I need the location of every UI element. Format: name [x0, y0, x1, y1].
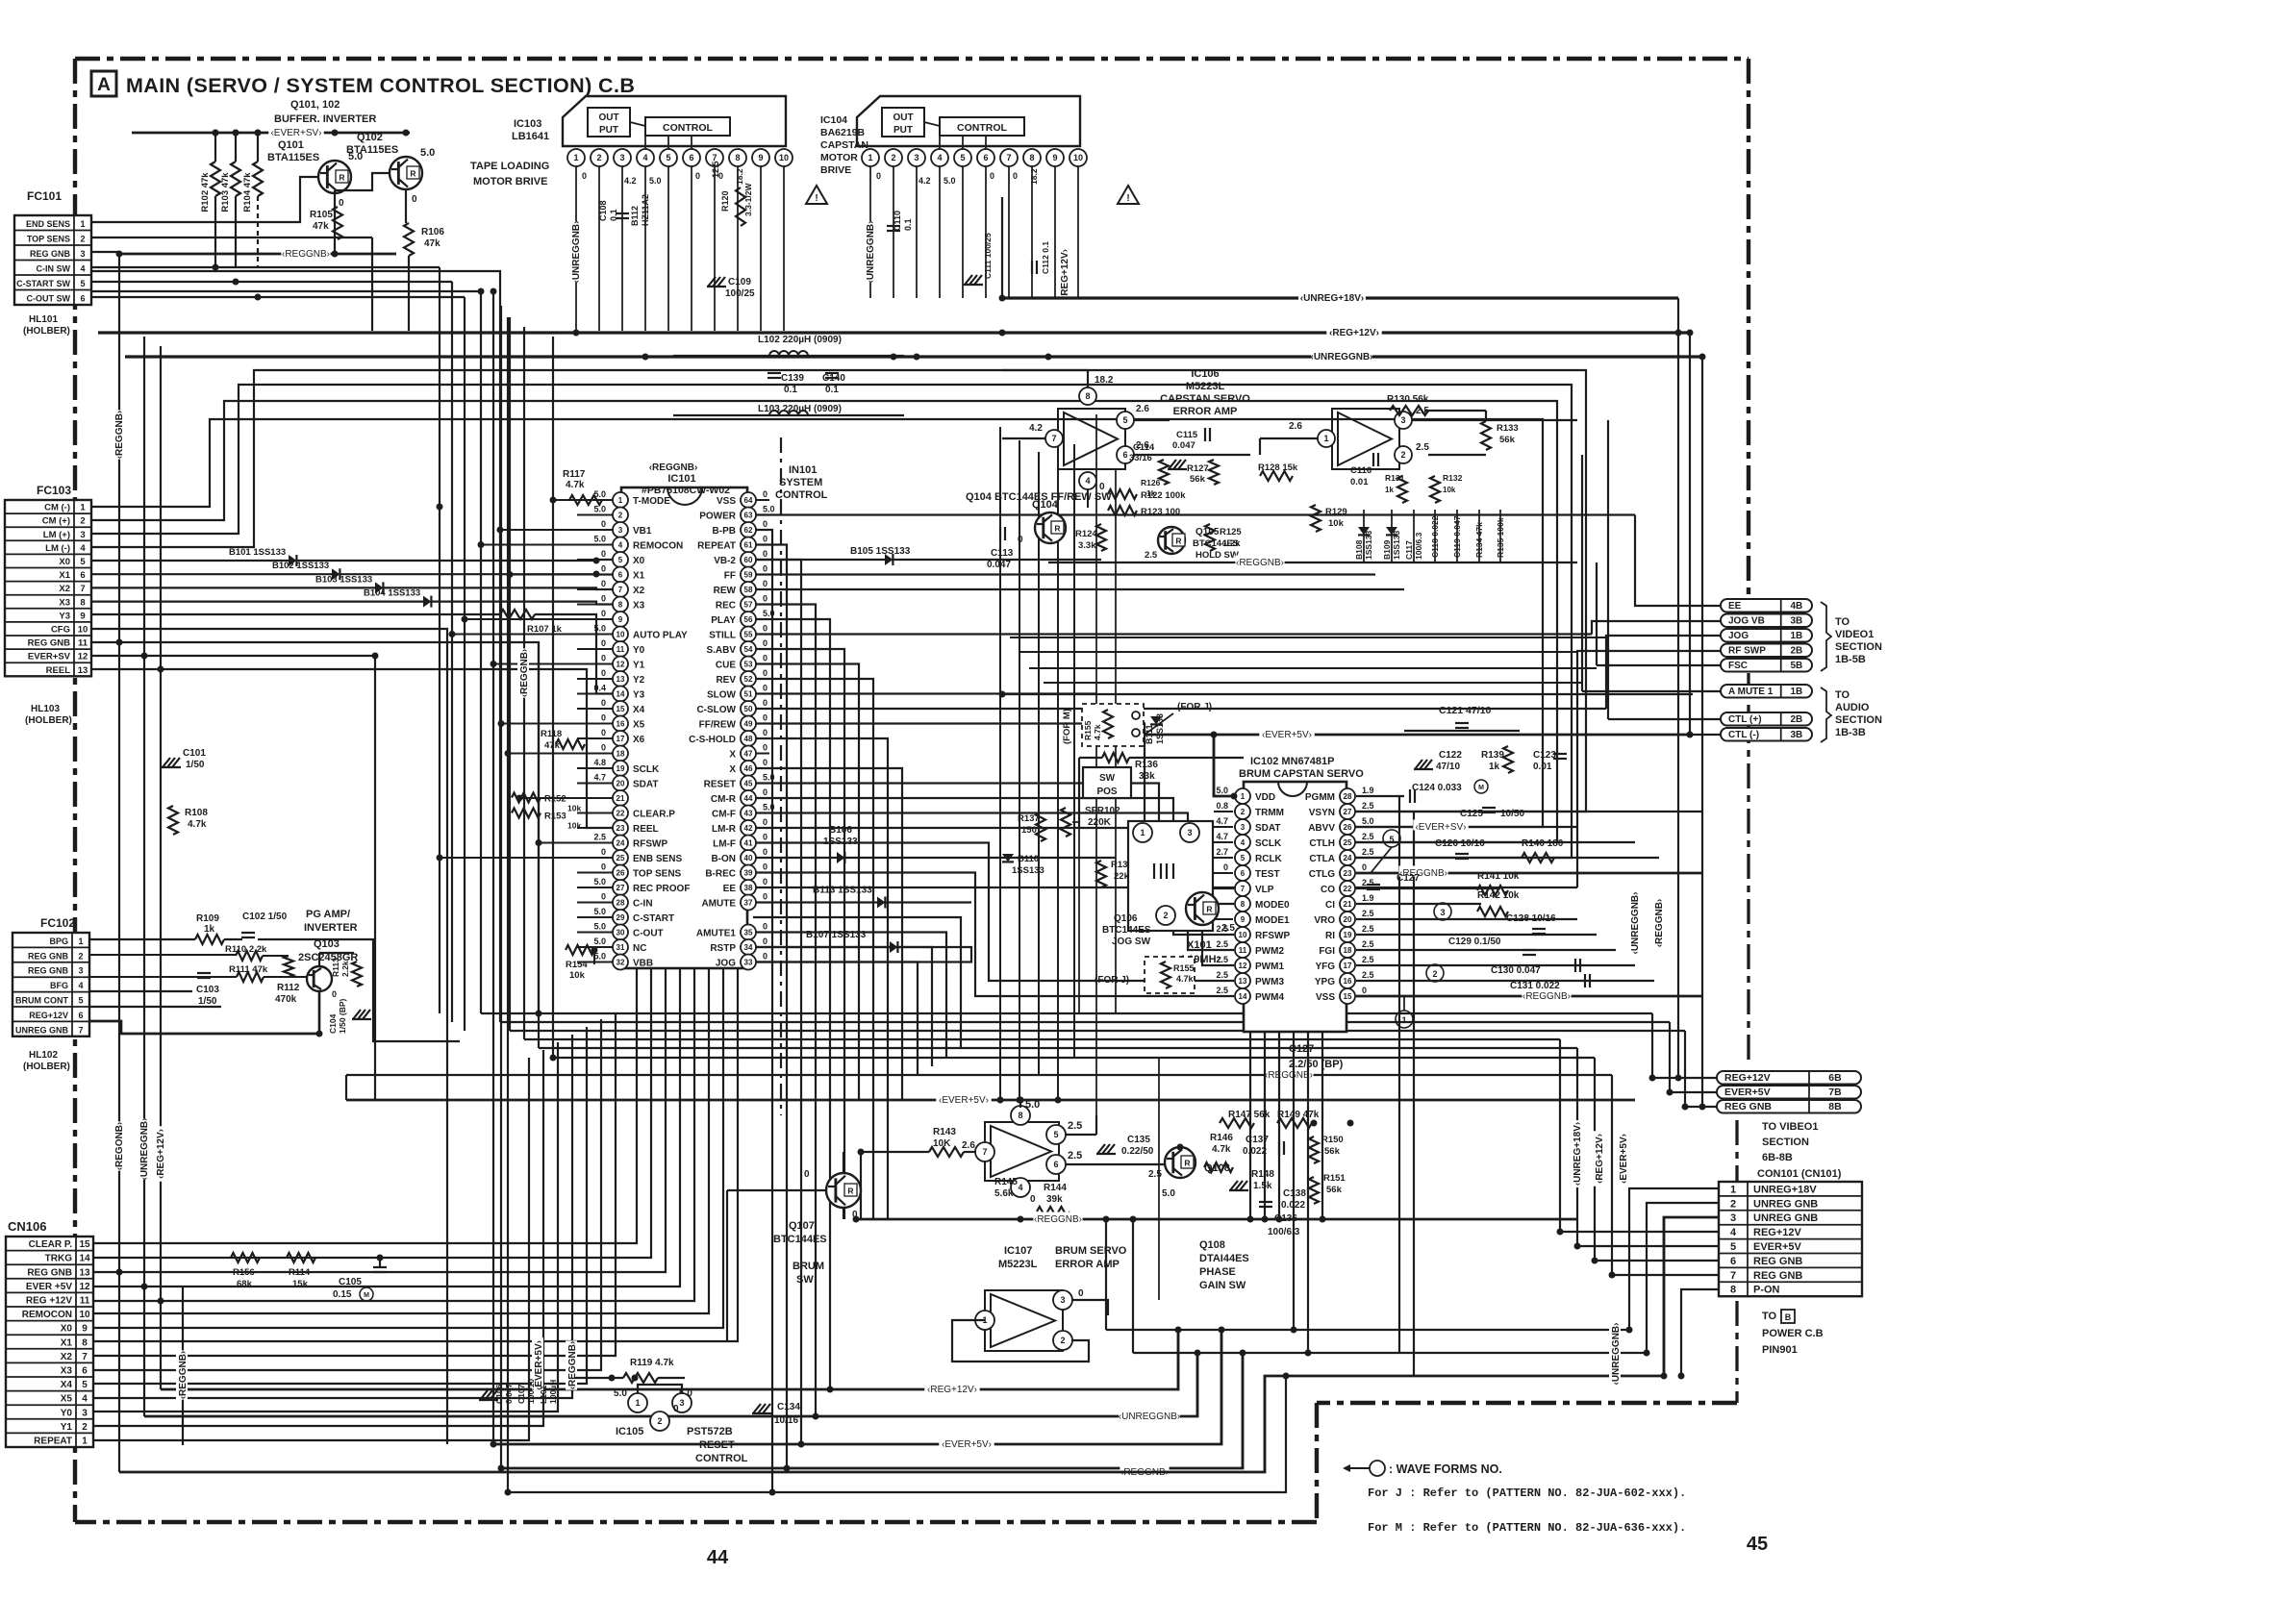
svg-text:56: 56 — [744, 615, 753, 624]
svg-text:1SS133: 1SS133 — [1012, 865, 1044, 876]
svg-text:3B: 3B — [1790, 616, 1802, 627]
svg-text:6: 6 — [82, 1366, 88, 1377]
svg-text:(FOR J): (FOR J) — [1177, 702, 1212, 712]
svg-text:M5223L: M5223L — [1186, 381, 1225, 392]
svg-text:18.2: 18.2 — [735, 168, 744, 185]
svg-text:REG GNB: REG GNB — [1724, 1101, 1772, 1112]
svg-text:REPEAT: REPEAT — [34, 1437, 72, 1447]
svg-text:R102 47k: R102 47k — [200, 172, 211, 212]
svg-text:A MUTE 1: A MUTE 1 — [1728, 687, 1774, 697]
svg-text:20: 20 — [1344, 915, 1352, 924]
svg-text:C135: C135 — [1127, 1135, 1150, 1145]
svg-text:FGI: FGI — [1319, 946, 1335, 957]
svg-text:IN101: IN101 — [789, 464, 817, 476]
svg-text:4.7: 4.7 — [593, 773, 606, 783]
svg-text:10: 10 — [1073, 153, 1083, 162]
svg-text:B106: B106 — [829, 825, 852, 836]
svg-text:C115: C115 — [1176, 430, 1198, 440]
svg-text:4: 4 — [1085, 476, 1090, 486]
svg-text:‹UNREG+18V›: ‹UNREG+18V› — [1300, 293, 1364, 304]
svg-text:2.5: 2.5 — [1068, 1150, 1082, 1162]
svg-text:B113 1SS133: B113 1SS133 — [813, 886, 872, 896]
svg-text:C127: C127 — [1289, 1043, 1314, 1055]
svg-text:STILL: STILL — [709, 631, 736, 641]
svg-text:8: 8 — [735, 153, 740, 162]
svg-text:R105: R105 — [310, 210, 333, 220]
svg-text:58: 58 — [744, 586, 753, 594]
svg-text:TO VIBEO1: TO VIBEO1 — [1762, 1121, 1818, 1133]
svg-text:‹UNREGGNB›: ‹UNREGGNB› — [1630, 892, 1641, 955]
svg-text:A: A — [97, 75, 111, 95]
svg-text:C-OUT: C-OUT — [633, 929, 664, 939]
svg-text:4.8: 4.8 — [593, 758, 606, 767]
svg-text:IC103: IC103 — [514, 118, 541, 130]
svg-text:0: 0 — [412, 194, 417, 205]
svg-text:15: 15 — [617, 705, 625, 713]
svg-text:56k: 56k — [1324, 1146, 1341, 1157]
svg-text:13: 13 — [79, 1267, 90, 1278]
svg-text:‹UNREGGNB›: ‹UNREGGNB› — [1611, 1323, 1622, 1386]
svg-text:37: 37 — [744, 899, 753, 908]
svg-text:2: 2 — [618, 512, 623, 520]
svg-text:C112 0.1: C112 0.1 — [1041, 241, 1050, 274]
svg-text:5.0: 5.0 — [593, 907, 606, 916]
svg-text:39k: 39k — [1046, 1194, 1063, 1205]
svg-text:57: 57 — [744, 601, 753, 610]
svg-text:23: 23 — [1344, 869, 1352, 878]
svg-text:REG GNB: REG GNB — [27, 1267, 72, 1278]
svg-text:(HOLBER): (HOLBER) — [23, 1062, 70, 1072]
svg-text:55: 55 — [744, 631, 753, 639]
svg-text:SECTION: SECTION — [1835, 714, 1882, 726]
svg-text:38: 38 — [744, 884, 753, 892]
svg-text:3: 3 — [80, 249, 85, 259]
svg-text:R136: R136 — [1135, 760, 1158, 770]
svg-text:1B: 1B — [1790, 687, 1802, 697]
svg-text:JOG SW: JOG SW — [1112, 937, 1151, 947]
svg-text:R155: R155 — [1173, 963, 1195, 973]
svg-text:60: 60 — [744, 556, 753, 564]
svg-text:BTA115ES: BTA115ES — [267, 152, 319, 163]
svg-text:VSS: VSS — [717, 496, 736, 507]
svg-text:0: 0 — [763, 654, 768, 663]
svg-text:2.2k: 2.2k — [340, 961, 350, 977]
svg-text:C-SLOW: C-SLOW — [696, 705, 736, 715]
svg-text:2: 2 — [1241, 808, 1246, 816]
svg-text:L101: L101 — [539, 1385, 548, 1404]
svg-text:0: 0 — [763, 713, 768, 723]
svg-text:C127: C127 — [1397, 873, 1420, 884]
svg-text:(FOR J): (FOR J) — [1095, 975, 1129, 986]
svg-text:5: 5 — [1389, 835, 1394, 844]
svg-text:6: 6 — [983, 153, 988, 162]
svg-text:62: 62 — [744, 526, 753, 535]
svg-text:16: 16 — [617, 720, 625, 729]
svg-text:R: R — [410, 169, 415, 179]
svg-text:5: 5 — [80, 557, 86, 567]
svg-text:CTL (-): CTL (-) — [1728, 730, 1759, 740]
svg-text:45: 45 — [744, 780, 753, 788]
svg-text:0: 0 — [601, 609, 606, 618]
svg-text:5: 5 — [1730, 1241, 1736, 1253]
svg-text:31: 31 — [617, 943, 625, 952]
svg-text:4: 4 — [80, 543, 86, 554]
svg-text:23: 23 — [617, 824, 625, 833]
svg-text:2: 2 — [1163, 911, 1168, 920]
svg-text:63: 63 — [744, 512, 753, 520]
svg-text:5: 5 — [1241, 854, 1246, 862]
svg-text:REG GNB: REG GNB — [28, 951, 69, 961]
svg-text:4.2: 4.2 — [1029, 423, 1043, 434]
svg-text:‹REGGNB›: ‹REGGNB› — [1236, 558, 1284, 568]
svg-text:INVERTER: INVERTER — [304, 922, 358, 934]
svg-text:REMOCON: REMOCON — [22, 1310, 72, 1320]
svg-text:34: 34 — [744, 943, 753, 952]
svg-text:6: 6 — [80, 294, 85, 304]
svg-text:2.5: 2.5 — [1068, 1120, 1082, 1132]
svg-text:13: 13 — [78, 665, 88, 676]
svg-text:2.5: 2.5 — [1216, 939, 1228, 949]
svg-text:10: 10 — [617, 631, 625, 639]
svg-text:PWM2: PWM2 — [1255, 946, 1284, 957]
svg-text:R127: R127 — [1187, 463, 1209, 474]
svg-text:3: 3 — [80, 530, 85, 540]
svg-text:X3: X3 — [633, 601, 645, 612]
svg-text:2: 2 — [1060, 1336, 1065, 1345]
svg-text:VRO: VRO — [1314, 915, 1335, 926]
svg-text:‹UNREGGNB›: ‹UNREGGNB› — [866, 221, 876, 284]
svg-text:1: 1 — [78, 937, 83, 946]
svg-text:M: M — [364, 1292, 369, 1299]
svg-text:2.5: 2.5 — [1145, 550, 1158, 561]
svg-text:2.5: 2.5 — [1216, 970, 1228, 980]
svg-text:Q105: Q105 — [1195, 527, 1220, 537]
svg-text:C113: C113 — [991, 548, 1014, 559]
svg-text:REG GNB: REG GNB — [28, 966, 69, 976]
svg-text:‹REG+12V›: ‹REG+12V› — [927, 1385, 977, 1395]
svg-text:45: 45 — [1747, 1534, 1768, 1555]
svg-text:Q107: Q107 — [789, 1220, 815, 1232]
svg-text:BTC144ES: BTC144ES — [1102, 925, 1151, 936]
svg-text:47/10: 47/10 — [1436, 762, 1460, 772]
svg-text:6: 6 — [1730, 1256, 1736, 1267]
svg-text:REG GNB: REG GNB — [1753, 1256, 1802, 1267]
svg-text:X4: X4 — [61, 1380, 73, 1390]
svg-text:2B: 2B — [1790, 714, 1802, 725]
svg-text:RCLK: RCLK — [1255, 854, 1283, 864]
svg-text:C130 0.047: C130 0.047 — [1491, 965, 1541, 976]
svg-text:TO: TO — [1835, 616, 1850, 628]
svg-text:9: 9 — [1241, 915, 1246, 924]
svg-text:42: 42 — [744, 824, 753, 833]
svg-text:53: 53 — [744, 661, 753, 669]
svg-text:2.6: 2.6 — [962, 1140, 975, 1151]
svg-text:0: 0 — [601, 698, 606, 708]
svg-text:‹UNREGGNB›: ‹UNREGGNB› — [571, 221, 582, 284]
svg-text:CTLH: CTLH — [1309, 838, 1335, 849]
svg-text:‹REGGNB›: ‹REGGNB› — [1654, 899, 1665, 948]
svg-text:X0: X0 — [633, 556, 645, 566]
svg-text:8: 8 — [1029, 153, 1034, 162]
svg-text:B-PB: B-PB — [713, 526, 736, 537]
svg-text:SW: SW — [1099, 773, 1116, 784]
svg-text:C123: C123 — [1533, 750, 1556, 761]
svg-text:9: 9 — [758, 153, 763, 162]
svg-text:5.0: 5.0 — [1216, 786, 1228, 795]
svg-text:BPG: BPG — [49, 937, 68, 946]
svg-text:Y3: Y3 — [633, 690, 645, 701]
svg-text:4.7k: 4.7k — [566, 480, 585, 490]
svg-text:2.5: 2.5 — [1362, 832, 1374, 841]
svg-text:3: 3 — [82, 1408, 88, 1418]
svg-text:R118: R118 — [541, 729, 562, 739]
svg-text:0: 0 — [601, 594, 606, 604]
svg-text:TOP SENS: TOP SENS — [27, 235, 70, 244]
svg-text:2.5: 2.5 — [1221, 923, 1235, 934]
svg-text:R153: R153 — [544, 812, 566, 822]
svg-text:0: 0 — [763, 668, 768, 678]
svg-text:8: 8 — [1085, 391, 1090, 401]
svg-text:YPG: YPG — [1315, 977, 1335, 987]
svg-text:9: 9 — [618, 615, 623, 624]
svg-text:C114: C114 — [1133, 442, 1155, 453]
svg-text:C128 10/16: C128 10/16 — [1506, 913, 1556, 924]
svg-text:CI: CI — [1325, 900, 1335, 911]
svg-text:1: 1 — [618, 496, 623, 505]
svg-text:C139: C139 — [781, 373, 804, 384]
svg-text:VDD: VDD — [1255, 792, 1275, 803]
svg-text:X3: X3 — [59, 597, 70, 608]
svg-text:1.9: 1.9 — [1362, 786, 1374, 795]
svg-text:0: 0 — [601, 668, 606, 678]
svg-text:AUTO PLAY: AUTO PLAY — [633, 631, 688, 641]
svg-text:‹EVER+5V›: ‹EVER+5V› — [1262, 730, 1312, 740]
svg-text:VB1: VB1 — [633, 526, 652, 537]
svg-text:CONTROL: CONTROL — [695, 1453, 748, 1464]
svg-text:2: 2 — [1400, 450, 1405, 460]
svg-text:0: 0 — [763, 638, 768, 648]
svg-text:LM-R: LM-R — [712, 824, 737, 835]
svg-text:IC105: IC105 — [616, 1426, 643, 1437]
svg-text:R120: R120 — [720, 190, 730, 212]
svg-text:FC101: FC101 — [27, 189, 62, 203]
svg-text:B109: B109 — [1382, 539, 1392, 560]
svg-text:0: 0 — [763, 937, 768, 946]
svg-text:2.5: 2.5 — [1362, 801, 1374, 811]
svg-text:C107: C107 — [516, 1384, 526, 1404]
svg-text:BA6219B: BA6219B — [820, 127, 866, 138]
svg-text:GAIN SW: GAIN SW — [1199, 1280, 1246, 1291]
svg-text:5.0: 5.0 — [649, 176, 662, 186]
svg-text:26: 26 — [617, 869, 625, 878]
svg-text:16: 16 — [1344, 977, 1352, 986]
svg-text:3.3-1/2W: 3.3-1/2W — [743, 183, 753, 216]
svg-text:15k: 15k — [292, 1279, 309, 1289]
svg-text:0: 0 — [763, 743, 768, 753]
svg-text:C118 0.022: C118 0.022 — [1430, 515, 1440, 558]
svg-text:X1: X1 — [61, 1337, 73, 1348]
svg-text:2B: 2B — [1790, 646, 1802, 657]
svg-text:R151: R151 — [1323, 1173, 1346, 1184]
svg-text:R122 100k: R122 100k — [1141, 490, 1186, 501]
svg-text:JOG VB: JOG VB — [1728, 616, 1765, 627]
svg-text:B105 1SS133: B105 1SS133 — [850, 546, 911, 557]
svg-text:REEL: REEL — [46, 665, 71, 676]
svg-text:RF SWP: RF SWP — [1728, 646, 1766, 657]
svg-text:49: 49 — [744, 720, 753, 729]
svg-text:CTLG: CTLG — [1309, 869, 1335, 880]
svg-text:1: 1 — [80, 219, 85, 229]
svg-text:HZ11A2: HZ11A2 — [641, 194, 650, 226]
svg-text:52: 52 — [744, 675, 753, 684]
svg-text:4: 4 — [642, 153, 647, 162]
svg-text:R135 100k: R135 100k — [1496, 517, 1505, 558]
svg-text:5.0: 5.0 — [593, 877, 606, 887]
svg-text:5.0: 5.0 — [593, 624, 606, 634]
svg-text:REG+12V: REG+12V — [1724, 1072, 1771, 1084]
svg-text:10k: 10k — [1328, 518, 1345, 529]
svg-text:0: 0 — [1030, 1194, 1036, 1205]
svg-text:3: 3 — [1400, 415, 1405, 425]
svg-text:R141 10k: R141 10k — [1477, 871, 1520, 882]
svg-text:5.0: 5.0 — [348, 151, 363, 162]
svg-text:14: 14 — [617, 690, 625, 699]
svg-text:10: 10 — [1239, 931, 1247, 939]
svg-text:7: 7 — [80, 584, 85, 594]
svg-text:0: 0 — [763, 579, 768, 588]
svg-text:R107 1k: R107 1k — [527, 624, 563, 635]
svg-text:5: 5 — [1122, 415, 1127, 425]
svg-text:SECTION: SECTION — [1762, 1137, 1809, 1148]
svg-text:R: R — [1206, 905, 1212, 914]
svg-text:6: 6 — [689, 153, 693, 162]
svg-text:21: 21 — [1344, 900, 1352, 909]
svg-text:2: 2 — [596, 153, 601, 162]
svg-text:PWM4: PWM4 — [1255, 992, 1284, 1003]
svg-text:CUE: CUE — [716, 661, 736, 671]
svg-text:TO: TO — [1835, 689, 1850, 701]
svg-text:6: 6 — [78, 1011, 83, 1020]
svg-text:YFG: YFG — [1315, 962, 1335, 972]
svg-text:39: 39 — [744, 869, 753, 878]
svg-text:3: 3 — [1730, 1212, 1736, 1224]
svg-text:TRKG: TRKG — [45, 1254, 73, 1264]
svg-text:B102 1SS133: B102 1SS133 — [272, 561, 329, 571]
svg-text:3.3k: 3.3k — [1078, 540, 1096, 551]
svg-text:IC101: IC101 — [667, 473, 695, 485]
svg-text:ABVV: ABVV — [1308, 823, 1335, 834]
svg-text:56k: 56k — [1190, 474, 1206, 485]
svg-text:CLEAR.P: CLEAR.P — [633, 810, 675, 820]
svg-text:BTC144ES: BTC144ES — [773, 1234, 827, 1245]
svg-text:48: 48 — [744, 735, 753, 743]
svg-text:X: X — [729, 764, 736, 775]
svg-text:END SENS: END SENS — [26, 219, 70, 229]
svg-text:5.0: 5.0 — [944, 176, 956, 186]
svg-text:18.2: 18.2 — [1029, 168, 1039, 185]
svg-text:4: 4 — [80, 264, 85, 274]
svg-text:4.7: 4.7 — [1216, 816, 1228, 826]
svg-text:HL101: HL101 — [29, 314, 58, 325]
svg-text:UNREG GNB: UNREG GNB — [1753, 1198, 1818, 1210]
svg-text:OUT: OUT — [598, 112, 618, 123]
svg-text:4.7k: 4.7k — [1093, 724, 1102, 740]
svg-text:0: 0 — [763, 847, 768, 857]
svg-text:X2: X2 — [633, 586, 645, 596]
svg-text:Y1: Y1 — [61, 1422, 73, 1433]
svg-text:10k: 10k — [569, 970, 586, 981]
svg-text:10: 10 — [79, 1310, 90, 1320]
svg-text:0: 0 — [763, 892, 768, 902]
svg-text:5.0: 5.0 — [763, 505, 775, 514]
svg-text:8: 8 — [1241, 900, 1246, 909]
svg-text:UNREG GNB: UNREG GNB — [1753, 1212, 1818, 1224]
svg-text:REV: REV — [716, 675, 736, 686]
svg-text:VSYN: VSYN — [1309, 808, 1335, 818]
svg-text:RESET: RESET — [704, 780, 736, 790]
svg-text:61: 61 — [744, 541, 753, 550]
svg-text:7: 7 — [82, 1352, 88, 1362]
svg-text:MODE1: MODE1 — [1255, 915, 1290, 926]
svg-text:14: 14 — [1239, 992, 1247, 1001]
svg-text:35: 35 — [744, 929, 753, 937]
svg-text:B110: B110 — [1018, 854, 1039, 864]
svg-text:Q101, 102: Q101, 102 — [290, 99, 340, 111]
svg-text:PG AMP/: PG AMP/ — [306, 909, 350, 920]
svg-text:X5: X5 — [61, 1394, 73, 1405]
svg-text:7: 7 — [1051, 434, 1056, 443]
svg-text:IC102 MN67481P: IC102 MN67481P — [1250, 756, 1334, 767]
svg-text:VBB: VBB — [633, 959, 653, 969]
svg-text:0: 0 — [601, 743, 606, 753]
svg-text:1: 1 — [635, 1398, 640, 1408]
svg-text:0: 0 — [763, 922, 768, 932]
svg-text:4.7k: 4.7k — [1212, 1144, 1231, 1155]
svg-text:2.5: 2.5 — [1362, 924, 1374, 934]
svg-text:0.1: 0.1 — [903, 218, 913, 231]
svg-text:R130 56k: R130 56k — [1387, 394, 1429, 405]
svg-text:‹REGGNB›: ‹REGGNB› — [567, 1341, 578, 1390]
svg-text:R123 100: R123 100 — [1141, 507, 1180, 517]
svg-text:C137: C137 — [1246, 1135, 1269, 1145]
svg-text:2.5: 2.5 — [1362, 909, 1374, 918]
svg-text:5.0: 5.0 — [593, 535, 606, 544]
svg-text:64: 64 — [744, 496, 753, 505]
svg-text:0: 0 — [601, 579, 606, 588]
svg-text:5: 5 — [1053, 1130, 1058, 1139]
svg-text:8: 8 — [1018, 1111, 1022, 1120]
svg-text:R146: R146 — [1210, 1133, 1233, 1143]
svg-text:REC: REC — [716, 601, 736, 612]
svg-text:CON101 (CN101): CON101 (CN101) — [1757, 1168, 1842, 1180]
svg-text:150: 150 — [1021, 825, 1037, 836]
svg-text:REG +12V: REG +12V — [26, 1296, 72, 1307]
svg-text:R156: R156 — [233, 1267, 255, 1278]
svg-text:9: 9 — [1052, 153, 1057, 162]
svg-text:14: 14 — [79, 1254, 90, 1264]
svg-text:18: 18 — [617, 750, 625, 759]
svg-text:BFG: BFG — [50, 981, 68, 990]
svg-text:2: 2 — [80, 235, 85, 244]
svg-text:R149 47k: R149 47k — [1277, 1110, 1320, 1120]
svg-text:PUT: PUT — [599, 125, 618, 136]
svg-text:47k: 47k — [424, 238, 440, 249]
svg-text:12: 12 — [78, 652, 88, 662]
svg-text:SDAT: SDAT — [633, 780, 658, 790]
svg-text:CN106: CN106 — [8, 1219, 46, 1234]
svg-text:0: 0 — [763, 549, 768, 559]
svg-text:CM-R: CM-R — [711, 794, 737, 805]
